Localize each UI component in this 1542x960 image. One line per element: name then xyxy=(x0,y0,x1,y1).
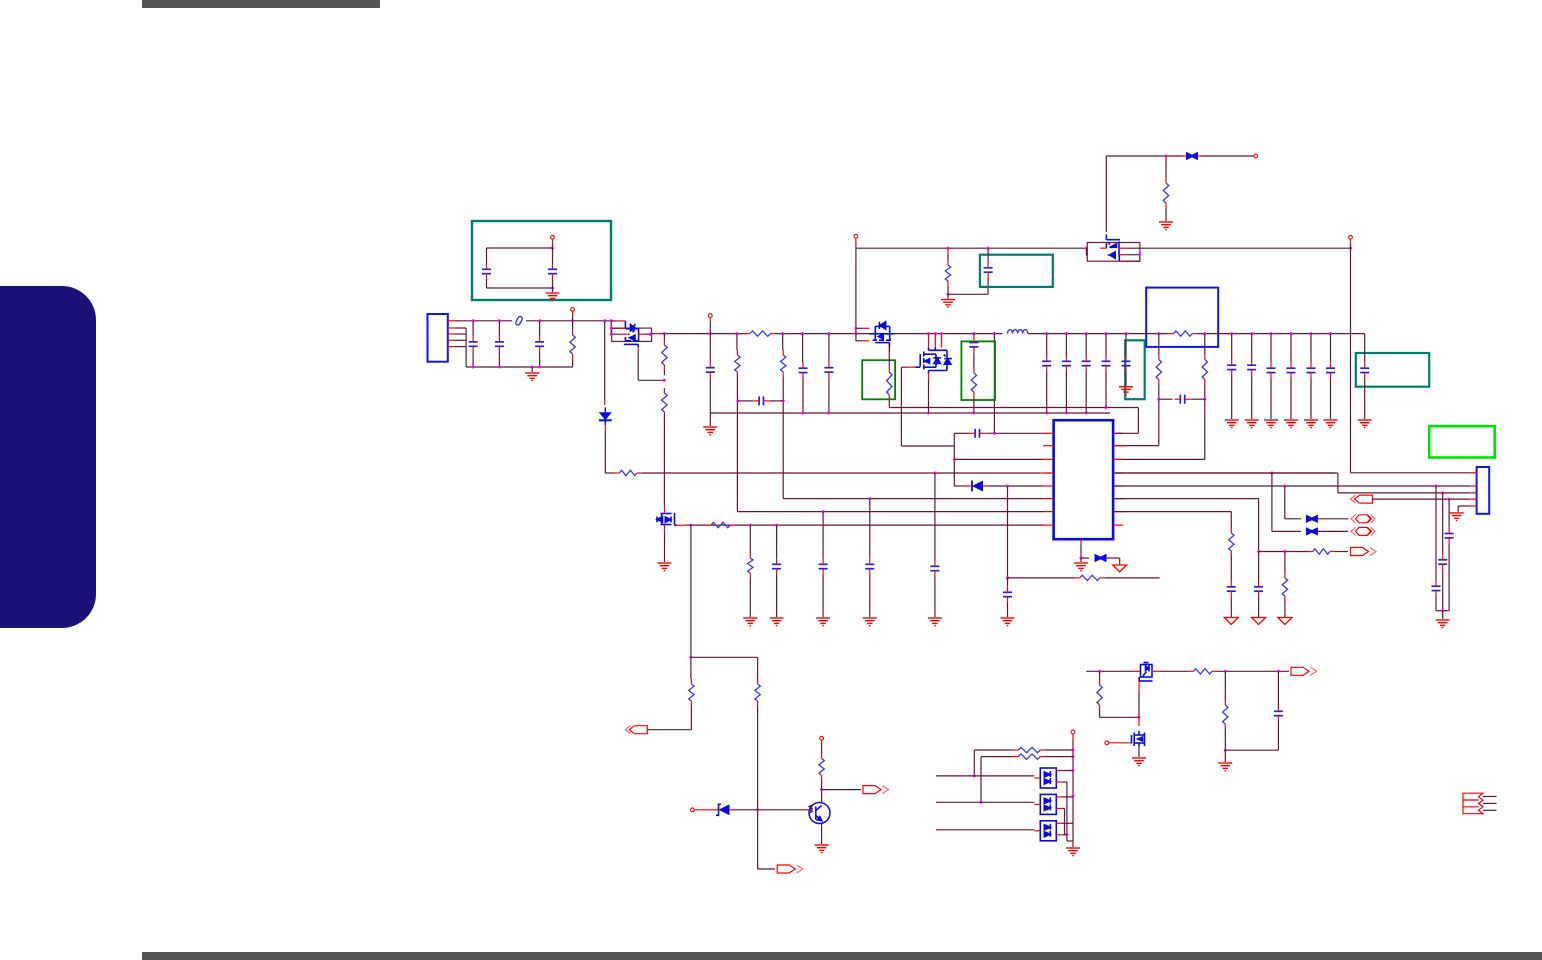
wire xyxy=(1204,334,1206,355)
wire xyxy=(1086,670,1134,672)
junction xyxy=(1277,670,1280,673)
wire xyxy=(1183,155,1186,157)
junction xyxy=(1203,398,1206,401)
wire xyxy=(448,346,455,348)
junction xyxy=(927,332,930,335)
wire xyxy=(486,248,488,264)
terminal xyxy=(1071,730,1075,734)
junction xyxy=(1072,755,1075,758)
wire xyxy=(1109,742,1131,744)
wire xyxy=(1138,691,1140,717)
wire xyxy=(663,370,665,375)
wire xyxy=(531,367,533,372)
wire xyxy=(1043,485,1054,487)
wire xyxy=(863,327,870,329)
wire xyxy=(1119,254,1126,256)
junction xyxy=(1085,412,1088,415)
junction xyxy=(1006,576,1009,579)
wire xyxy=(1045,756,1073,758)
resistor PR11 xyxy=(945,265,950,281)
wire xyxy=(1045,749,1073,751)
wire xyxy=(1251,334,1253,360)
wire xyxy=(486,280,488,289)
capacitor at 1311.0 xyxy=(1307,368,1316,372)
wire xyxy=(472,321,474,336)
wire xyxy=(552,239,554,244)
wire xyxy=(1350,239,1352,244)
transistor Q3 xyxy=(1132,731,1145,747)
ground xyxy=(703,427,717,435)
wire xyxy=(1442,611,1444,619)
fuse PF2 xyxy=(515,316,523,326)
wire xyxy=(455,339,466,341)
wire xyxy=(1470,485,1477,487)
resistor PR12 xyxy=(1156,360,1161,380)
block outline BATTERY xyxy=(472,221,611,300)
wire xyxy=(1284,486,1286,519)
wire xyxy=(618,320,626,322)
wire xyxy=(1105,577,1160,579)
wire rail xyxy=(889,407,1138,409)
side tab xyxy=(0,286,96,628)
wire xyxy=(1043,445,1054,447)
wire xyxy=(1066,782,1068,841)
junction xyxy=(1349,247,1352,250)
wire gate PQ3 xyxy=(901,366,907,368)
net label PWR_SW xyxy=(625,726,647,734)
wire xyxy=(610,321,612,334)
terminal VBAT xyxy=(551,235,555,239)
junction xyxy=(1085,247,1088,250)
junction xyxy=(1157,398,1160,401)
junction xyxy=(1157,332,1160,335)
junction xyxy=(1045,332,1048,335)
wire xyxy=(1470,472,1477,474)
wire xyxy=(1113,472,1123,474)
ground xyxy=(1132,758,1146,766)
wire xyxy=(736,809,809,811)
ground xyxy=(1159,222,1173,230)
junction xyxy=(1283,485,1286,488)
wire xyxy=(855,238,857,243)
IC U1 charger controller xyxy=(1054,420,1114,539)
transistor Q1 xyxy=(809,803,830,824)
wire xyxy=(455,320,460,322)
junction xyxy=(1224,670,1227,673)
wire xyxy=(709,334,711,362)
wire xyxy=(1335,551,1348,553)
wire xyxy=(572,359,574,367)
wire xyxy=(1043,511,1054,513)
ground xyxy=(525,373,539,381)
junction xyxy=(735,332,738,335)
net label DCIN_SW1 xyxy=(1351,515,1375,523)
wire xyxy=(1043,472,1054,474)
net label SUSP xyxy=(777,865,803,873)
wire xyxy=(611,333,618,335)
wire xyxy=(1085,254,1088,256)
wire xyxy=(663,417,665,496)
wire xyxy=(1483,809,1497,811)
wire xyxy=(709,318,711,323)
junction xyxy=(1283,550,1286,553)
wire net B+ xyxy=(1197,333,1364,335)
wire xyxy=(709,322,711,334)
junction xyxy=(1085,332,1088,335)
wire xyxy=(901,445,954,447)
wire pin2 right xyxy=(1113,445,1159,447)
wire xyxy=(604,431,606,473)
ground xyxy=(1218,763,1232,771)
wire xyxy=(655,333,660,335)
wire xyxy=(611,327,618,329)
wire xyxy=(1138,717,1140,726)
wire xyxy=(776,525,778,558)
wire xyxy=(1272,530,1301,532)
wire xyxy=(1085,334,1087,356)
block outline green PR10 xyxy=(862,360,895,399)
wire xyxy=(1158,385,1160,446)
wire xyxy=(1113,432,1123,434)
junction xyxy=(756,808,759,811)
wire xyxy=(1100,716,1139,718)
junction xyxy=(854,327,857,330)
junction xyxy=(1448,498,1451,501)
junction xyxy=(1105,406,1108,409)
wire xyxy=(637,347,639,353)
wire xyxy=(802,378,804,413)
wire xyxy=(1062,770,1073,772)
wire xyxy=(1251,375,1253,419)
wire xyxy=(552,288,554,292)
wire xyxy=(1284,601,1286,618)
wire rail GND xyxy=(710,412,1110,414)
footer bar xyxy=(142,952,1542,960)
wire xyxy=(993,334,995,408)
wire xyxy=(822,575,824,618)
connector PJP2 xyxy=(1477,467,1490,514)
wire input 3 xyxy=(936,829,1034,831)
wire xyxy=(869,499,871,559)
wire xyxy=(1100,247,1106,249)
junction xyxy=(689,656,692,659)
wire pin6 left xyxy=(783,498,1043,500)
capacitor PC at 539.6 xyxy=(535,342,544,346)
wire xyxy=(1330,378,1332,419)
wire xyxy=(690,706,692,730)
junction xyxy=(736,399,739,402)
wire xyxy=(1159,398,1173,400)
wire xyxy=(1119,260,1126,262)
junction xyxy=(663,332,666,335)
wire xyxy=(1113,524,1123,526)
junction xyxy=(1441,609,1444,612)
wire input 2 xyxy=(936,801,1034,803)
capacitor PC8 xyxy=(1180,395,1184,404)
net label ACAV xyxy=(1351,548,1377,556)
capacitor PC3 xyxy=(706,368,715,372)
capacitor PC10 xyxy=(1003,592,1012,596)
wire xyxy=(1125,372,1127,386)
wire xyxy=(1277,722,1279,751)
wire xyxy=(934,473,936,561)
junction xyxy=(1138,253,1141,256)
junction xyxy=(1072,749,1075,752)
wire xyxy=(1119,247,1126,249)
ground xyxy=(1324,420,1338,428)
net label VOUT xyxy=(1291,667,1317,675)
junction xyxy=(538,366,541,369)
wire xyxy=(1126,247,1140,249)
wire xyxy=(828,378,830,413)
wire xyxy=(856,327,863,329)
wire xyxy=(1043,498,1054,500)
resistor PR1 xyxy=(1163,183,1168,203)
ground xyxy=(928,618,942,626)
junction xyxy=(551,247,554,250)
wire xyxy=(1072,739,1074,847)
header bar xyxy=(142,0,380,8)
fuse F5 xyxy=(1306,515,1318,523)
capacitor PC13 xyxy=(1122,361,1131,365)
wire xyxy=(1137,408,1139,434)
wire input 1 xyxy=(936,775,1034,777)
wire xyxy=(611,320,618,322)
junction xyxy=(1065,412,1068,415)
wire xyxy=(1064,808,1066,834)
terminal xyxy=(820,736,824,740)
wire xyxy=(1330,334,1332,363)
inductor xyxy=(1008,330,1028,334)
junction xyxy=(610,333,613,336)
wire xyxy=(980,757,982,803)
wire xyxy=(1350,244,1352,248)
component box PQ5 xyxy=(1087,243,1140,262)
fuse F4 xyxy=(1306,527,1318,535)
capacitor PC21 xyxy=(1445,534,1454,538)
wire xyxy=(684,524,691,526)
wire xyxy=(973,334,975,337)
resistor PR13 xyxy=(1202,360,1207,380)
junction xyxy=(801,332,804,335)
wire xyxy=(1043,432,1054,434)
wire xyxy=(1364,334,1366,363)
capacitor at 1231.7 xyxy=(1227,365,1236,369)
diode PD1 xyxy=(599,412,612,420)
net label DCIN_SW2 xyxy=(1351,527,1375,535)
resistor PR5 xyxy=(662,345,667,365)
connector PJP1 xyxy=(428,314,448,362)
wire net DCIN down xyxy=(1105,156,1107,232)
wire pin1 left xyxy=(954,432,969,434)
wire xyxy=(757,657,759,679)
junction xyxy=(953,458,956,461)
wire xyxy=(1224,750,1226,762)
wire xyxy=(1062,834,1067,836)
wire to connector pin1 xyxy=(1351,472,1471,474)
wire xyxy=(647,729,691,731)
wire xyxy=(539,352,541,367)
wire xyxy=(1483,796,1497,798)
junction xyxy=(649,333,652,336)
capacitor at 1251.7 xyxy=(1247,365,1256,369)
junction xyxy=(947,247,950,250)
junction xyxy=(775,524,778,527)
resistor PR10 xyxy=(887,372,892,395)
ground xyxy=(1436,620,1450,628)
resistor R3 xyxy=(819,759,824,776)
fuse PF1 xyxy=(1186,152,1198,160)
junction xyxy=(993,332,996,335)
ground xyxy=(658,563,672,571)
wire xyxy=(1138,681,1140,691)
capacitor PC17 xyxy=(1254,587,1263,591)
wire xyxy=(749,578,751,617)
capacitor PC2 xyxy=(548,269,557,273)
wire xyxy=(1134,670,1140,672)
junction xyxy=(1270,472,1273,475)
junction xyxy=(1435,485,1438,488)
wire xyxy=(757,706,759,869)
ground xyxy=(1304,420,1318,428)
wire xyxy=(1067,840,1073,842)
transistor PQ2 xyxy=(869,322,894,347)
capacitor PC6 xyxy=(824,368,833,372)
wire xyxy=(1230,556,1232,581)
wire xyxy=(1230,512,1232,528)
block outline blue charger xyxy=(1146,288,1218,347)
wire xyxy=(1043,458,1054,460)
capacitor PC5 xyxy=(799,368,808,372)
wire xyxy=(1317,530,1348,532)
wire xyxy=(487,247,553,249)
wire xyxy=(821,790,823,803)
resistor PR9 xyxy=(781,355,786,372)
wire xyxy=(928,334,930,348)
capacitor PC12 xyxy=(865,564,874,568)
wire pin7 left xyxy=(737,511,1043,513)
junction xyxy=(1125,332,1128,335)
wire xyxy=(1113,472,1338,474)
wire xyxy=(498,321,500,336)
transistor Q2 xyxy=(1139,663,1152,682)
capacitor PC11 xyxy=(930,566,939,570)
photocoupler U2 xyxy=(1040,768,1056,788)
wire xyxy=(736,334,738,350)
wire xyxy=(1201,155,1254,157)
wire xyxy=(448,320,455,322)
wire xyxy=(889,347,891,352)
junction xyxy=(927,412,930,415)
resistor PR2 xyxy=(570,335,575,354)
ground xyxy=(816,618,830,626)
power ground xyxy=(1224,618,1238,625)
wire xyxy=(1106,557,1119,559)
wire xyxy=(1007,578,1009,587)
junction xyxy=(1230,332,1233,335)
capacitor PC19 xyxy=(1438,560,1447,564)
junction xyxy=(801,412,804,415)
junction xyxy=(1065,833,1068,836)
wire xyxy=(855,243,857,341)
resistor PR18 xyxy=(1229,533,1234,551)
wire xyxy=(928,373,930,381)
wire xyxy=(1065,372,1067,414)
wire xyxy=(1372,498,1470,500)
ground xyxy=(546,293,560,301)
wire xyxy=(736,377,738,511)
wire xyxy=(448,333,455,335)
wire xyxy=(808,809,813,811)
terminal xyxy=(1349,235,1353,239)
component box PQ1 xyxy=(612,328,652,341)
junction xyxy=(820,788,823,791)
wire xyxy=(1442,570,1444,611)
junction xyxy=(940,332,943,335)
capacitor PC14 xyxy=(819,564,828,568)
wire net B+ xyxy=(1028,333,1169,335)
resistor R4 xyxy=(1018,747,1040,752)
wire xyxy=(1126,260,1140,262)
wire xyxy=(987,278,989,294)
wire net B+ xyxy=(660,333,745,335)
ground xyxy=(1119,387,1133,395)
capacitor PC at 499.4 xyxy=(495,342,504,346)
ground xyxy=(1001,618,1015,626)
photocoupler U4 xyxy=(1040,821,1056,841)
wire xyxy=(821,745,823,754)
wire net DCIN xyxy=(1106,155,1183,157)
wire xyxy=(1470,498,1477,500)
capacitor at 1086.2 xyxy=(1082,361,1091,365)
wire xyxy=(1113,498,1123,500)
wire xyxy=(1217,670,1289,672)
wire xyxy=(934,577,936,618)
wire xyxy=(1062,781,1067,783)
wire xyxy=(1105,372,1107,408)
ground xyxy=(770,618,784,626)
resistor PR3 xyxy=(750,331,770,336)
wire xyxy=(821,780,823,789)
resistor PR8 xyxy=(735,355,740,372)
wire xyxy=(1113,445,1123,447)
wire xyxy=(1198,155,1201,157)
wire xyxy=(448,339,455,341)
resistor R1 xyxy=(689,684,694,701)
junction xyxy=(498,366,501,369)
wire xyxy=(1458,505,1470,507)
wire xyxy=(973,397,975,413)
junction xyxy=(1441,491,1444,494)
junction xyxy=(980,801,983,804)
wire xyxy=(1271,473,1273,531)
ground xyxy=(1245,420,1259,428)
wire xyxy=(1470,492,1477,494)
wire net pin4 xyxy=(642,472,1040,474)
terminal xyxy=(708,314,712,318)
junction xyxy=(1270,332,1273,335)
wire xyxy=(664,525,666,532)
capacitor PC16 xyxy=(1227,587,1236,591)
junction xyxy=(749,524,752,527)
wire xyxy=(1337,473,1339,493)
wire xyxy=(947,294,949,298)
capacitor PC4 xyxy=(759,396,763,405)
junction xyxy=(603,319,606,322)
capacitor at 1106.0 xyxy=(1102,361,1111,365)
junction xyxy=(947,293,950,296)
resistor R5 xyxy=(1018,754,1040,759)
